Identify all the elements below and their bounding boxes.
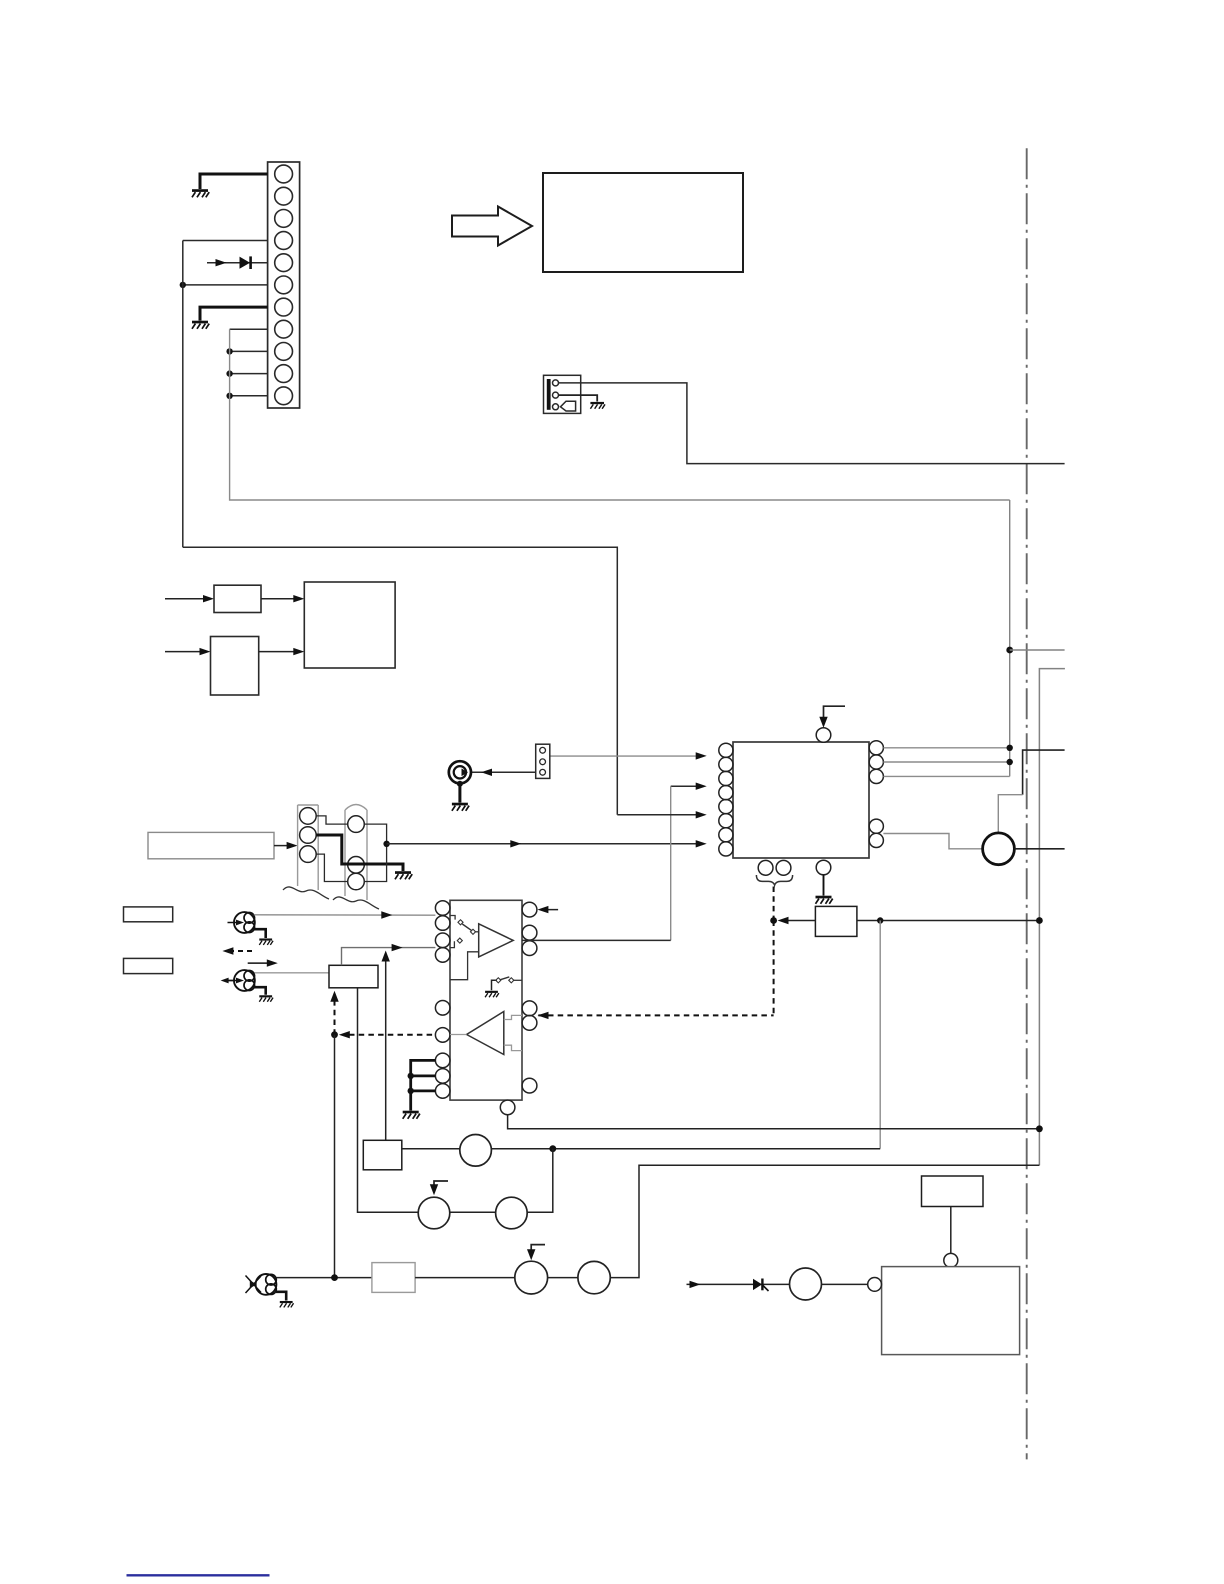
ground strip bbox=[395, 871, 412, 879]
switch SW1 inside U2 bbox=[450, 916, 455, 920]
wire node to right edge bbox=[1010, 649, 1065, 651]
wire junction to IC U1 pin with arrow bbox=[387, 843, 700, 845]
dashed direction arrow bbox=[229, 950, 256, 952]
wire box B to box C bbox=[259, 651, 297, 653]
box HEAD left pin bbox=[868, 1278, 882, 1292]
connector CN2 polarizing bar bbox=[547, 379, 551, 410]
label box L2 bbox=[124, 958, 173, 973]
wire BIAS to head pin bbox=[950, 1207, 952, 1254]
wire L to right edge upper bbox=[1039, 669, 1065, 1166]
U2 bottom pins thick wires to ground bbox=[411, 1060, 436, 1110]
RCA jack J0 bbox=[449, 761, 471, 783]
input arrow 2 bbox=[165, 651, 203, 653]
wire CN1 pin6 with junction bbox=[183, 284, 268, 286]
wire strip1 pin3 to strip2 pin3 bbox=[316, 854, 348, 881]
erase osc circle bbox=[790, 1268, 822, 1300]
box EQ bbox=[363, 1140, 402, 1170]
arrow into IC U1 top pin bbox=[824, 706, 846, 722]
wire CN1 pin1 to ground bbox=[200, 174, 268, 189]
crossed arrows J3 bbox=[246, 1276, 262, 1294]
wire CN2 pin1 across and down to right edge bbox=[559, 383, 1065, 464]
feedback wire inside U2 bbox=[450, 952, 479, 980]
IC U1 right wire 2 bbox=[883, 761, 1009, 763]
connector CN1 body bbox=[268, 162, 300, 408]
solid direction arrow bbox=[248, 962, 271, 964]
solid vertical from junction down bbox=[334, 1035, 336, 1278]
label box L1 bbox=[124, 907, 173, 922]
switch SW3 with ground inside U2 bbox=[492, 980, 497, 990]
wire CN1 pin8 bbox=[230, 328, 268, 330]
wire bus CN1 pins8-11 down and across page bbox=[230, 329, 1010, 500]
arrow into M1 bbox=[434, 1181, 448, 1189]
block arrow symbol bbox=[452, 207, 532, 246]
IC U1 right wire 1 bbox=[883, 747, 1009, 749]
dashed wire to U2 pin with arrow bbox=[349, 1034, 435, 1036]
node dot on vertical bus bbox=[1006, 647, 1013, 654]
IC U1 lower right wire to bold circle bbox=[883, 834, 982, 849]
U2 left pins top bbox=[435, 901, 450, 963]
mixer M4 bbox=[578, 1261, 610, 1293]
wire delay box to strip bbox=[274, 845, 290, 847]
box HEAD bbox=[882, 1267, 1020, 1355]
wire M4 up and across to bus bbox=[610, 1165, 1039, 1277]
strip P2 cable break wave bbox=[333, 897, 379, 909]
gray vertical from AGC2 node down bbox=[879, 921, 881, 1149]
U2 left pins bottom bbox=[435, 1053, 450, 1098]
wire CN3 pin3 to RCA jack with arrow bbox=[471, 771, 536, 773]
wire CN1 pin9 bbox=[230, 350, 268, 352]
mixer M2 bbox=[496, 1197, 528, 1229]
strip P2 pins bbox=[348, 816, 365, 890]
arrow stub into U2 top right pin bbox=[541, 909, 558, 911]
U2 bottom pin bbox=[500, 1100, 515, 1115]
A2 input steps bbox=[504, 1015, 522, 1019]
jack J1 bbox=[234, 912, 255, 933]
connector CN2 body bbox=[544, 375, 581, 413]
brace under IC U1 bottom pins bbox=[756, 875, 792, 885]
jack J3 bbox=[256, 1274, 277, 1295]
ground U2 bbox=[403, 1111, 420, 1119]
dashed wire from brace down bbox=[773, 887, 775, 921]
wire REC to mixer M3 bbox=[415, 1277, 515, 1279]
big callout box bbox=[543, 173, 743, 272]
wire CN1 pin11 bbox=[230, 395, 268, 397]
wire J3 to box REC bbox=[276, 1277, 372, 1279]
U2 right pins bbox=[522, 902, 537, 1093]
wire strip1 pin1 to strip2 pin1 bbox=[316, 816, 348, 824]
wire box AGC2 right to bus bbox=[857, 920, 1040, 922]
wire vertical from CN1 pins 4,6 bbox=[182, 241, 184, 548]
A2 output stub bbox=[450, 1034, 467, 1036]
ground J1 bbox=[254, 929, 266, 938]
black wire step to right edge bbox=[1023, 750, 1065, 795]
connector CN3 pins bbox=[540, 747, 546, 775]
cable strip P1 bbox=[298, 805, 319, 890]
opamp A2 bbox=[467, 1012, 504, 1055]
diode D2 bbox=[753, 1279, 762, 1290]
ground CN2 bbox=[590, 402, 605, 409]
wire CN3 to IC U1 pin1 bbox=[546, 755, 700, 757]
wire box A to box C bbox=[261, 598, 297, 600]
wire J2 to box AGC bbox=[255, 972, 330, 974]
wire M3 to M4 bbox=[548, 1277, 578, 1279]
IC U1 left pins bbox=[719, 743, 733, 856]
dashed wire down to opamp line bbox=[773, 921, 775, 1016]
out arrow J2 bbox=[226, 980, 234, 982]
strip P1 cable break wave bbox=[283, 887, 329, 899]
block box A bbox=[214, 585, 261, 612]
diode D1 bbox=[240, 257, 251, 269]
dashed junction dot bbox=[331, 1031, 338, 1038]
wire CN1 pin10 bbox=[230, 373, 268, 375]
strip P1 pins bbox=[300, 808, 317, 863]
ground J2 bbox=[254, 987, 266, 995]
connector CN3 body bbox=[536, 744, 550, 778]
wire EQ to head circle bbox=[402, 1148, 460, 1150]
IC U1 top pin bbox=[816, 728, 831, 743]
footer blue rule bbox=[127, 1574, 270, 1576]
bold circle node bbox=[983, 833, 1015, 865]
arrow into M3 bbox=[531, 1245, 545, 1254]
AGC second riser down to mixer bbox=[358, 988, 418, 1212]
wire osc to head pin bbox=[822, 1283, 868, 1285]
opamp A1 bbox=[479, 924, 514, 957]
cable strip P2 bbox=[345, 805, 367, 901]
connector CN1 pin circles bbox=[275, 165, 293, 405]
wire CN1 pin4 bbox=[183, 240, 268, 242]
U2 left pins middle bbox=[435, 1001, 450, 1043]
wire AGC top riser to U2 with arrow bbox=[342, 948, 436, 966]
wire CN1 pin7 to ground bbox=[200, 307, 268, 320]
connector CN2 key tag bbox=[561, 401, 576, 411]
wire CN2 pin2 to ground bbox=[559, 395, 598, 401]
dashed wire junction dot bbox=[770, 917, 777, 924]
dashed wire from U2 right pin bbox=[538, 1014, 773, 1016]
wire strip2 pin1 to junction riser bbox=[364, 824, 386, 881]
mixer M3 bbox=[515, 1261, 548, 1294]
head circle H1 bbox=[460, 1135, 492, 1167]
box AGC bbox=[329, 965, 378, 988]
connector CN2 pins bbox=[553, 380, 559, 410]
switch SW2 contact inside U2 bbox=[450, 941, 454, 947]
thick wire strip1 pin2 to ground bbox=[316, 835, 403, 871]
wire J1 to U2 with arrow bbox=[254, 914, 436, 916]
box REC bbox=[372, 1263, 415, 1293]
wire bold circle to right edge bbox=[1014, 848, 1064, 850]
ground CN1 pin7 bbox=[192, 321, 209, 329]
opamp IC U2 body bbox=[450, 900, 522, 1100]
ground J0 bbox=[457, 781, 463, 787]
junction dot bbox=[383, 841, 389, 847]
head pin circle bbox=[944, 1253, 958, 1267]
wire M1 to M2 bbox=[450, 1211, 495, 1213]
block box C bbox=[304, 582, 395, 668]
IC U1 right wire 3 bbox=[883, 775, 1009, 777]
ground CN1 pin1 bbox=[192, 189, 209, 197]
arrow into IC U1 pin3 bbox=[617, 814, 699, 816]
jack J2 bbox=[234, 970, 255, 991]
dashed wire AGC bottom with up arrow bbox=[334, 999, 336, 1035]
gray step down to bold circle bbox=[998, 795, 1022, 833]
wire into erase chain with arrow bbox=[687, 1283, 790, 1285]
wire H1 across bbox=[492, 1148, 880, 1150]
IC U1 right pins bbox=[869, 741, 883, 848]
wire opamp output riser to IC U1 pin2 bbox=[671, 785, 700, 787]
ground IC U1 bottom pin bbox=[823, 875, 825, 896]
chain line page boundary bbox=[1026, 148, 1028, 1459]
mixer M1 bbox=[418, 1197, 450, 1229]
box AGC2 bbox=[815, 906, 857, 936]
delay line box bbox=[148, 832, 274, 858]
vertical wire with up arrow bbox=[385, 958, 387, 1140]
riser from mixer M2 bbox=[528, 1149, 553, 1213]
wire across to vertical riser bbox=[183, 547, 618, 815]
block box B bbox=[211, 637, 259, 696]
wire vertical to IC U1 right pins bbox=[1009, 500, 1011, 776]
wire box AGC2 to dashed junction with arrow bbox=[783, 920, 816, 922]
input arrow 1 bbox=[165, 598, 207, 600]
wire CN1 pin5 with arrow and diode bbox=[207, 262, 268, 264]
ground J3 bbox=[276, 1292, 286, 1301]
box BIAS bbox=[922, 1176, 984, 1207]
IC U1 body bbox=[733, 742, 869, 858]
U2 bottom pin wire across bbox=[508, 1115, 1040, 1129]
U2 opamp output wire bbox=[522, 939, 671, 941]
IC U1 bottom pins bbox=[758, 860, 831, 875]
